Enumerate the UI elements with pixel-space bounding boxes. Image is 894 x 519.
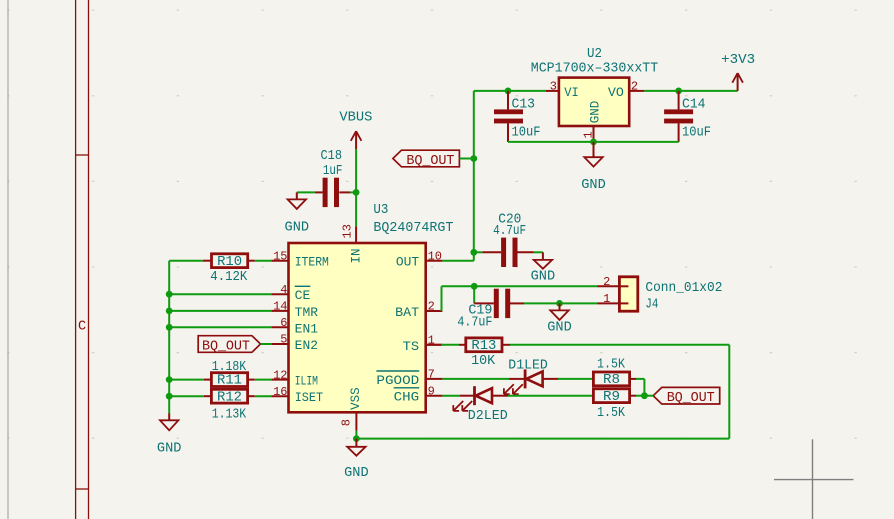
wire rail jog xyxy=(473,252,475,260)
svg-text:GND: GND xyxy=(547,320,572,335)
junction VSS/loop xyxy=(353,435,360,442)
wire BQ_OUT to EN2 pin xyxy=(261,343,272,345)
svg-text:1uF: 1uF xyxy=(323,164,343,179)
U3 pin 5 EN2 xyxy=(271,333,318,353)
wire BQ_OUT rail vertical xyxy=(473,91,475,252)
capacitor C20 leads xyxy=(482,251,533,253)
resistor R12 leads xyxy=(204,395,255,397)
wire loop bottom xyxy=(356,438,729,440)
svg-text:IN: IN xyxy=(349,249,363,264)
capacitor C14 xyxy=(664,109,693,123)
svg-text:+3V3: +3V3 xyxy=(721,53,755,68)
wire R12 to ISET pin xyxy=(255,395,271,397)
svg-text:6: 6 xyxy=(280,316,287,330)
junction U2 GND xyxy=(590,139,597,146)
svg-text:BQ24074RGT: BQ24074RGT xyxy=(373,221,453,236)
U2 pin 2 VO xyxy=(608,79,644,100)
wire U2 ground row xyxy=(508,141,679,143)
net label BQ_OUT right xyxy=(653,387,720,406)
sheet edge line xyxy=(7,0,9,519)
svg-text:J4: J4 xyxy=(645,298,658,313)
svg-text:12: 12 xyxy=(273,368,287,382)
svg-text:1.5K: 1.5K xyxy=(597,358,626,373)
wire C19 drop xyxy=(473,286,475,303)
net label BQ_OUT mid xyxy=(393,150,460,169)
svg-text:U3: U3 xyxy=(373,203,388,218)
ground under U2 xyxy=(581,142,606,193)
wire C19 right to J4 pin1 xyxy=(524,302,598,304)
wire D2 to R9 xyxy=(508,395,593,397)
U3 pin 4 CE xyxy=(271,283,310,303)
U3 pin 7 PGOOD xyxy=(376,368,442,388)
net label BQ_OUT at EN2 xyxy=(198,336,260,355)
svg-text:4.12K: 4.12K xyxy=(210,270,248,285)
wire left rail vertical xyxy=(168,261,170,414)
svg-text:R9: R9 xyxy=(603,390,620,405)
connector J4 Conn_01x02 xyxy=(619,277,637,311)
resistor R11 leads xyxy=(204,379,255,381)
resistor R10 xyxy=(212,254,248,270)
svg-text:BAT: BAT xyxy=(395,306,420,320)
junction rail/BQ_OUT label xyxy=(470,155,477,162)
svg-text:ISET: ISET xyxy=(295,391,324,405)
svg-text:4.7uF: 4.7uF xyxy=(493,224,526,239)
junction rail/R11 xyxy=(166,376,173,383)
svg-text:2: 2 xyxy=(603,275,610,289)
wire CE row xyxy=(169,293,271,295)
svg-text:VSS: VSS xyxy=(349,387,363,410)
svg-text:PGOOD: PGOOD xyxy=(376,374,419,388)
svg-text:CE: CE xyxy=(295,289,311,303)
wire R13 right xyxy=(510,344,729,346)
wire junction to BQ_OUT label xyxy=(644,395,653,397)
resistor R10 leads xyxy=(203,260,255,262)
U3 pin 13 IN xyxy=(341,224,364,263)
U2 pin 3 VI xyxy=(546,79,579,100)
wire VBUS vertical to IN pin xyxy=(355,149,357,226)
capacitor C19 leads xyxy=(474,302,524,304)
junction rail/TMR xyxy=(166,308,173,315)
U3 pin 14 TMR xyxy=(271,300,318,320)
svg-text:3: 3 xyxy=(550,79,557,93)
U2 pin 1 GND xyxy=(581,101,602,142)
svg-text:1.5K: 1.5K xyxy=(597,406,626,421)
resistor R8 xyxy=(593,372,629,388)
svg-text:R13: R13 xyxy=(471,339,496,354)
junction C13 tap xyxy=(505,88,512,95)
svg-text:C14: C14 xyxy=(682,97,706,112)
svg-text:8: 8 xyxy=(340,419,354,426)
sheet border frame xyxy=(76,0,89,519)
wire OUT pin to rail xyxy=(442,260,473,262)
diode D2 LED xyxy=(453,386,508,411)
resistor R9 leads xyxy=(630,395,636,397)
wire TS pin to R13 xyxy=(426,344,459,346)
wire BAT pin up xyxy=(426,286,442,311)
ground under VSS xyxy=(344,439,369,482)
svg-text:13: 13 xyxy=(341,224,355,238)
svg-text:D1LED: D1LED xyxy=(508,359,548,374)
wire EN1 row xyxy=(169,326,271,328)
resistor R12 xyxy=(211,389,247,405)
ground at J4 xyxy=(547,303,572,335)
junction rail/C20 xyxy=(470,249,477,256)
svg-text:EN2: EN2 xyxy=(295,339,318,353)
svg-text:C: C xyxy=(78,320,86,335)
svg-text:GND: GND xyxy=(581,178,606,193)
wire R9 to junction xyxy=(636,395,644,397)
capacitor C19 xyxy=(494,289,510,318)
J4 pin 2 xyxy=(598,275,620,289)
svg-text:9: 9 xyxy=(428,384,435,398)
svg-text:7: 7 xyxy=(428,368,435,382)
wire VI row xyxy=(474,90,546,92)
wire ITERM row left xyxy=(169,260,203,262)
wire loop right vertical xyxy=(728,345,730,439)
wire R10 to ITERM pin xyxy=(255,260,271,262)
svg-text:R10: R10 xyxy=(217,255,242,270)
svg-text:TS: TS xyxy=(403,340,420,354)
svg-text:VI: VI xyxy=(564,86,579,100)
svg-text:1: 1 xyxy=(581,131,595,138)
svg-text:C18: C18 xyxy=(321,149,343,164)
junction rail/EN1 xyxy=(166,324,173,331)
U3 pin 6 EN1 xyxy=(271,316,318,336)
svg-text:R11: R11 xyxy=(217,374,242,389)
svg-text:ILIM: ILIM xyxy=(295,375,318,389)
svg-text:TMR: TMR xyxy=(295,306,319,320)
svg-text:U2: U2 xyxy=(587,47,602,62)
svg-text:GND: GND xyxy=(531,269,556,284)
ground at C18 xyxy=(285,192,310,235)
wire rail to R12 xyxy=(169,395,204,397)
wire TMR row xyxy=(169,310,271,312)
ground at C20 xyxy=(531,252,556,284)
wire C20 right to ground xyxy=(534,251,543,253)
svg-text:R12: R12 xyxy=(217,390,242,405)
capacitor C13 leads xyxy=(507,91,509,142)
svg-text:4.7uF: 4.7uF xyxy=(457,316,492,331)
svg-text:GND: GND xyxy=(157,441,182,456)
resistor R11 xyxy=(211,373,247,389)
U3 pin 15 ITERM xyxy=(271,249,329,269)
sheet crosshair mark xyxy=(774,439,854,519)
wire rail to R11 xyxy=(169,379,204,381)
resistor R13 xyxy=(466,338,502,354)
svg-text:MCP1700x–330xxTT: MCP1700x–330xxTT xyxy=(531,62,659,77)
ground left rail xyxy=(157,414,182,457)
svg-text:2: 2 xyxy=(631,79,638,93)
svg-text:1.18K: 1.18K xyxy=(212,360,247,375)
wire PGOOD pin to D1 xyxy=(442,378,509,380)
wire C18 right to VBUS xyxy=(350,191,356,193)
U3 pin 12 ILIM xyxy=(271,368,318,388)
diode D1 LED xyxy=(504,369,559,394)
wire BAT row to J4 pin2 xyxy=(442,285,598,287)
svg-text:D2LED: D2LED xyxy=(468,409,508,424)
junction ground tap xyxy=(556,300,563,307)
svg-text:4: 4 xyxy=(280,283,287,297)
svg-text:10: 10 xyxy=(428,249,442,263)
svg-text:Conn_01x02: Conn_01x02 xyxy=(645,281,722,296)
U3 pin 10 OUT xyxy=(396,249,442,269)
svg-text:R8: R8 xyxy=(603,373,620,388)
svg-text:VO: VO xyxy=(608,86,624,100)
svg-text:BQ_OUT: BQ_OUT xyxy=(202,339,250,354)
svg-text:14: 14 xyxy=(273,300,287,314)
wire C18 left to ground xyxy=(297,191,315,193)
svg-text:5: 5 xyxy=(280,333,287,347)
wire CHG pin to D2 xyxy=(442,395,460,397)
svg-text:BQ_OUT: BQ_OUT xyxy=(667,391,715,406)
svg-text:GND: GND xyxy=(588,101,602,124)
U3 pin 1 TS xyxy=(403,334,443,354)
svg-text:ITERM: ITERM xyxy=(295,256,329,270)
svg-text:1: 1 xyxy=(603,292,610,306)
capacitor C14 leads xyxy=(678,91,680,142)
U3 pin 9 CHG xyxy=(394,384,443,404)
svg-text:BQ_OUT: BQ_OUT xyxy=(406,154,454,169)
wire VO row to +3V3 xyxy=(644,90,737,92)
svg-text:C13: C13 xyxy=(512,97,536,112)
svg-text:15: 15 xyxy=(273,249,287,263)
svg-text:10K: 10K xyxy=(471,354,496,369)
junction rail/CE xyxy=(166,291,173,298)
wire D1 to R8 xyxy=(558,378,594,380)
svg-text:16: 16 xyxy=(273,385,287,399)
svg-text:10uF: 10uF xyxy=(682,126,711,141)
wire R8 to junction xyxy=(636,379,644,396)
svg-text:EN1: EN1 xyxy=(295,322,318,336)
wire VSS drop xyxy=(355,431,357,439)
svg-text:OUT: OUT xyxy=(396,256,420,270)
U3 pin 8 VSS xyxy=(340,387,363,430)
wire R11 to ILIM pin xyxy=(255,379,271,381)
power symbol VBUS xyxy=(339,110,372,149)
svg-text:1.13K: 1.13K xyxy=(212,407,247,422)
J4 pin 1 xyxy=(598,292,620,306)
op-amp U3 BQ24074RGT body xyxy=(289,243,426,412)
resistor R9 xyxy=(593,389,629,405)
power symbol +3V3 xyxy=(721,53,755,91)
junction rail/R12 xyxy=(166,393,173,400)
op-amp U2 MCP1700 body xyxy=(559,78,629,126)
junction C19 tap xyxy=(471,283,478,290)
capacitor C18 xyxy=(315,178,350,207)
svg-text:GND: GND xyxy=(344,466,369,481)
resistor R13 leads xyxy=(459,344,510,346)
resistor R8 leads xyxy=(630,378,636,380)
U3 pin 16 ISET xyxy=(271,385,323,405)
svg-text:CHG: CHG xyxy=(394,391,420,405)
svg-text:10uF: 10uF xyxy=(512,126,541,141)
wire BQ_OUT label to rail xyxy=(459,158,473,160)
svg-text:VBUS: VBUS xyxy=(339,110,372,125)
capacitor C13 xyxy=(494,109,523,123)
U3 pin 2 BAT xyxy=(395,300,442,320)
capacitor C20 xyxy=(501,238,517,267)
junction C14 tap xyxy=(675,88,682,95)
svg-text:GND: GND xyxy=(285,221,310,236)
junction VBUS/C18 xyxy=(353,189,360,196)
wire C20 left xyxy=(474,251,483,253)
junction R8/R9/BQ_OUT xyxy=(641,392,648,399)
